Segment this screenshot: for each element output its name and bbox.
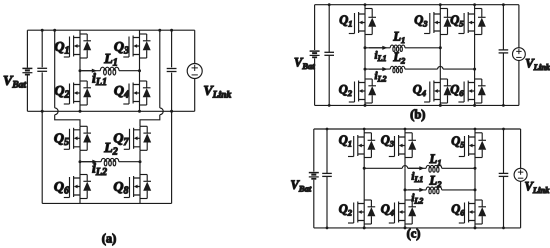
svg-text:Q1: Q1	[339, 133, 352, 149]
wire L1 row left (a)	[80, 70, 100, 72]
label Q1 (c)	[339, 133, 352, 149]
wire leg2 mid (c)	[404, 168, 406, 190]
svg-text:Q4: Q4	[114, 84, 129, 101]
label i_L2 (a)	[92, 162, 107, 179]
inductor L2 (b)	[390, 66, 405, 72]
wire Q5 source down (b)	[474, 35, 476, 70]
wire Q8 source to bottom rail	[139, 199, 141, 204]
capacitor C1 (b)	[324, 5, 334, 106]
svg-text:Q3: Q3	[414, 13, 428, 29]
inductor L1 (b)	[390, 45, 405, 51]
wire Q4 drain from L1 node	[139, 71, 141, 81]
node leg3 top (c)	[474, 128, 477, 131]
label Q4 (c)	[381, 202, 394, 218]
wire L1 row mid (c)	[408, 167, 427, 169]
wire Q7 source to L2 node	[139, 150, 141, 161]
node leg1 top (c)	[363, 128, 366, 131]
wire leg1 mid (b)	[364, 48, 366, 69]
transistor Q7	[124, 126, 151, 150]
wire Q3 source down (c)	[404, 158, 406, 169]
label V_Bat (b)	[294, 56, 315, 72]
node cap2 top (c)	[502, 128, 505, 131]
wire lower-right rail (a)	[171, 111, 173, 203]
wire L1 hop (c)	[402, 166, 407, 169]
wire leg3 to Q6 (b)	[474, 69, 476, 79]
node L1 join (b)	[439, 46, 442, 49]
label Q4 (b)	[413, 83, 426, 99]
svg-text:Q8: Q8	[113, 180, 128, 197]
node leg3 top (b)	[473, 3, 476, 6]
label V_Bat (c)	[291, 178, 312, 194]
label Q1	[54, 40, 69, 57]
wire left rail (a)	[26, 30, 28, 111]
wire bottom rail (c)	[314, 227, 521, 229]
wire Q2 source to rail (c)	[363, 224, 365, 228]
inductor L2 (a)	[101, 158, 119, 165]
source V_Link (a)	[187, 64, 202, 79]
svg-text:Q3: Q3	[381, 133, 395, 149]
transistor Q2 (c)	[348, 200, 375, 224]
node L1 takeoff (c)	[363, 167, 366, 170]
svg-text:VBat: VBat	[294, 56, 315, 72]
label Q5	[54, 132, 69, 149]
svg-text:L2: L2	[429, 174, 443, 190]
node L1 right (a)	[138, 69, 141, 72]
node Q2 source (c)	[363, 226, 366, 229]
label Q6 (c)	[451, 202, 465, 218]
svg-text:Q4: Q4	[381, 202, 394, 218]
label Q7	[113, 132, 129, 149]
node cap1 top (b)	[328, 3, 331, 6]
svg-text:VBat: VBat	[3, 74, 26, 91]
node L2 join (c)	[474, 188, 477, 191]
wire L2 row left (a)	[80, 161, 101, 163]
node Q2 source (b)	[364, 104, 367, 107]
label Q1 (b)	[339, 13, 352, 29]
wire L1 row right (b)	[405, 47, 440, 49]
transistor Q6 (b)	[458, 79, 485, 103]
inductor L1 (a)	[100, 67, 119, 75]
transistor Q5 (c)	[459, 129, 486, 158]
svg-text:iL1: iL1	[411, 171, 423, 185]
svg-text:VBat: VBat	[291, 178, 312, 194]
wire Q1 source down (b)	[364, 35, 366, 48]
wire top rail (a)	[27, 29, 194, 31]
transistor Q1 (c)	[348, 129, 375, 158]
transistor Q8	[124, 175, 151, 199]
label Q6 (b)	[450, 83, 464, 99]
wire left feed (a)	[55, 30, 80, 126]
label V_Link (a)	[203, 84, 231, 101]
node L1 takeoff (b)	[364, 46, 367, 49]
transistor Q4 (b)	[424, 79, 451, 103]
wire L2 row right (c)	[442, 189, 475, 191]
svg-text:iL2: iL2	[375, 70, 387, 84]
wire Q6 drain from L2 node	[79, 162, 81, 175]
wire L2 row mid (b)	[405, 68, 438, 70]
node L2 takeoff (c)	[404, 188, 407, 191]
label i_L2 (b)	[375, 70, 387, 84]
node L2 right (a)	[139, 160, 142, 163]
label V_Link (c)	[525, 180, 550, 196]
label (b)	[410, 108, 425, 122]
inductor L2 (c)	[426, 187, 442, 194]
wire lower-left rail (a)	[41, 111, 43, 203]
transistor Q4	[123, 81, 150, 105]
node L2 left (a)	[79, 160, 82, 163]
inductor L1 (c)	[426, 165, 442, 172]
node cap1 bottom (b)	[328, 104, 331, 107]
wire leg2 mid (b)	[439, 48, 441, 79]
svg-text:L1: L1	[429, 152, 442, 168]
current arrow i_L2 (c)	[408, 188, 425, 192]
capacitor C1 (c)	[322, 129, 332, 228]
wire Q4 source to rail (b)	[439, 103, 441, 105]
transistor Q1 (b)	[349, 5, 376, 35]
label Q4	[114, 84, 129, 101]
source V_Link (b)	[513, 48, 526, 61]
label Q3	[114, 40, 129, 57]
wire top rail (c)	[314, 128, 521, 130]
wire leg3 mid (c)	[474, 168, 476, 190]
label i_L1 (b)	[375, 50, 387, 64]
label L2 (c)	[429, 174, 443, 190]
transistor Q3	[123, 30, 150, 58]
node leg1 top (b)	[364, 3, 367, 6]
node cap2 bottom (c)	[502, 227, 505, 230]
wire L1 row left (b)	[365, 47, 390, 49]
label i_L1 (a)	[92, 71, 107, 88]
svg-text:Q5: Q5	[451, 134, 465, 150]
capacitor C1 (a)	[37, 30, 47, 111]
wire leg1 to Q2 (c)	[363, 168, 365, 200]
transistor Q4 (c)	[389, 200, 416, 224]
wire left rail (b)	[314, 5, 316, 106]
label V_Bat (a)	[3, 74, 26, 91]
wire L1 row right (a)	[119, 70, 140, 72]
svg-text:(b): (b)	[410, 108, 425, 122]
wire Q6 source to bottom rail	[79, 199, 81, 204]
node cap2 top (b)	[502, 3, 505, 6]
wire Q6 source to rail (c)	[474, 224, 476, 228]
transistor Q6 (c)	[459, 200, 486, 224]
svg-text:VLink: VLink	[525, 57, 550, 73]
node L1 left (a)	[79, 69, 82, 72]
wire Q8 drain from L2 node	[139, 162, 141, 175]
label Q8	[113, 180, 128, 197]
wire Q5 source to L2 node	[79, 150, 81, 161]
label L2 (a)	[103, 141, 118, 158]
node cap1 bottom (c)	[326, 227, 329, 230]
svg-text:(a): (a)	[102, 232, 117, 246]
wire Q5 source down (c)	[474, 158, 476, 169]
label Q5 (b)	[450, 13, 464, 29]
svg-text:Q1: Q1	[339, 13, 352, 29]
node leg2 top (b)	[439, 3, 442, 6]
label L2 (b)	[392, 50, 406, 66]
label Q2 (c)	[339, 202, 353, 218]
transistor Q2 (b)	[349, 79, 376, 103]
svg-text:Q2: Q2	[339, 83, 353, 99]
wire V_Link rail (c)	[520, 129, 522, 228]
svg-text:VLink: VLink	[525, 180, 550, 196]
wire Q6 source to rail (b)	[474, 103, 476, 105]
source V_Link (c)	[514, 168, 527, 181]
node Q4 source (a)	[138, 110, 141, 113]
wire L1 row left (c)	[364, 167, 402, 169]
wire Q3 source down (b)	[439, 35, 441, 48]
svg-text:Q3: Q3	[114, 40, 129, 57]
node cap2 bottom (a)	[170, 110, 173, 113]
label (c)	[407, 227, 421, 241]
svg-text:(c): (c)	[407, 227, 421, 241]
node leg2 top (c)	[404, 128, 407, 131]
wire leg2 to Q4 (c)	[404, 190, 406, 200]
label Q3 (c)	[381, 133, 395, 149]
wire mid rail (a)	[27, 110, 194, 112]
node Q2 source (a)	[79, 110, 82, 113]
wire L1 row right (c)	[442, 167, 475, 169]
svg-text:L2: L2	[392, 50, 406, 66]
svg-text:Q2: Q2	[54, 84, 69, 101]
wire L2 row left (c)	[405, 189, 426, 191]
svg-text:iL1: iL1	[92, 71, 107, 88]
label Q3 (b)	[414, 13, 428, 29]
node Q4 source (c)	[404, 226, 407, 229]
node cap2 top (a)	[170, 29, 173, 32]
battery V_Bat (a)	[22, 68, 32, 74]
label Q6	[54, 180, 69, 197]
svg-text:Q5: Q5	[54, 132, 69, 149]
node cap1 bottom (a)	[41, 110, 44, 113]
svg-text:L1: L1	[392, 30, 405, 46]
wire L2 row right (a)	[119, 161, 140, 163]
wire Q2 source to rail (b)	[364, 103, 366, 105]
wire left rail (c)	[313, 129, 315, 228]
current arrow i_L1 (b)	[369, 46, 388, 50]
node right feed top (a)	[158, 29, 161, 32]
transistor Q3 (c)	[389, 129, 416, 158]
wire bottom rail (a)	[42, 202, 171, 204]
wire L2 row right (b)	[443, 68, 475, 70]
node Q6 source (b)	[473, 104, 476, 107]
svg-text:VLink: VLink	[203, 84, 231, 101]
svg-text:Q2: Q2	[339, 202, 353, 218]
node L2 join (b)	[473, 68, 476, 71]
label i_L1 (c)	[411, 171, 423, 185]
wire top rail (b)	[315, 4, 519, 6]
wire right feed (a)	[140, 30, 163, 126]
svg-text:Q1: Q1	[54, 40, 69, 57]
transistor Q2	[64, 81, 91, 105]
svg-text:Q4: Q4	[413, 83, 426, 99]
label Q2	[54, 84, 69, 101]
node L1 join (c)	[474, 167, 477, 170]
wire bottom rail (b)	[315, 104, 519, 106]
node cap1 top (c)	[326, 128, 329, 131]
wire Q1 source down (c)	[363, 158, 365, 169]
wire leg1 to Q2 (b)	[364, 69, 366, 79]
wire L2 row left (b)	[365, 68, 390, 70]
svg-text:iL2: iL2	[411, 192, 423, 206]
wire Q4 source to rail (c)	[404, 224, 406, 228]
wire Q2 source to mid rail	[79, 105, 81, 111]
wire Q1 source to L1 node	[79, 58, 81, 71]
label L1 (a)	[103, 52, 118, 69]
node cap1 top (a)	[41, 29, 44, 32]
label i_L2 (c)	[411, 192, 423, 206]
label Q2 (b)	[339, 83, 353, 99]
wire Q2 drain from L1 node	[79, 71, 81, 81]
node Q4 source (b)	[439, 104, 442, 107]
label (a)	[102, 232, 117, 246]
node left feed top (a)	[53, 29, 56, 32]
transistor Q1	[64, 30, 91, 58]
capacitor C2 (a)	[167, 30, 177, 111]
svg-text:iL1: iL1	[375, 50, 387, 64]
svg-text:Q6: Q6	[450, 83, 464, 99]
wire Q4 source to mid rail	[139, 105, 141, 111]
wire leg3 to Q6 (c)	[474, 190, 476, 200]
label L1 (c)	[429, 152, 442, 168]
node cap2 bottom (b)	[502, 104, 505, 107]
svg-text:Q5: Q5	[450, 13, 464, 29]
current arrow i_L1 (c)	[408, 166, 425, 170]
label Q5 (c)	[451, 134, 465, 150]
transistor Q5	[64, 126, 91, 150]
capacitor C2 (b)	[499, 5, 509, 106]
battery V_Bat (c)	[309, 173, 319, 179]
transistor Q6	[64, 175, 91, 199]
node Q6 source (c)	[474, 226, 477, 229]
current arrow i_L1 (a)	[82, 69, 97, 73]
label L1 (b)	[392, 30, 405, 46]
transistor Q5 (b)	[458, 5, 485, 35]
wire V_Link rail (b)	[518, 5, 520, 106]
label V_Link (b)	[525, 57, 550, 73]
battery V_Bat (b)	[310, 51, 320, 57]
capacitor C2 (c)	[499, 129, 509, 228]
current arrow i_L2 (a)	[82, 160, 98, 164]
transistor Q3 (b)	[424, 5, 451, 35]
wire V_Link rail (a)	[194, 30, 196, 111]
node L2 takeoff (b)	[364, 68, 367, 71]
wire crossover hop (b)	[438, 66, 443, 69]
wire Q3 source to L1 node	[139, 58, 141, 71]
svg-text:Q6: Q6	[451, 202, 465, 218]
current arrow i_L2 (b)	[369, 67, 388, 71]
svg-text:Q6: Q6	[54, 180, 69, 197]
